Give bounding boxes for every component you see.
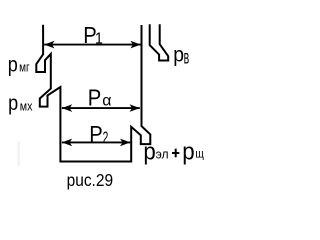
P1 dimension line xyxy=(44,41,141,49)
svg-text:мх: мх xyxy=(20,98,33,113)
P2 dimension line xyxy=(62,139,130,147)
svg-text:puc.29: puc.29 xyxy=(67,170,113,190)
label pмг xyxy=(8,53,30,77)
left funnel wall with Pмг and Pмх outlets, bottom and right wall with Pэл outlet xyxy=(36,25,150,162)
svg-text:α: α xyxy=(102,93,111,110)
label P2 xyxy=(89,121,108,148)
svg-text:в: в xyxy=(184,48,190,69)
faint scan streak artifact xyxy=(18,141,21,166)
label P1 xyxy=(83,22,103,49)
svg-text:p: p xyxy=(8,91,18,115)
svg-text:p: p xyxy=(8,53,18,77)
svg-text:эл: эл xyxy=(156,147,169,161)
svg-text:1: 1 xyxy=(95,30,103,48)
label pв xyxy=(173,43,189,69)
svg-text:мг: мг xyxy=(19,62,30,75)
svg-text:2: 2 xyxy=(103,129,109,147)
label pмх xyxy=(8,91,32,115)
svg-text:P: P xyxy=(88,84,101,111)
Pв inlet channel (top right) xyxy=(150,24,169,60)
svg-text:p: p xyxy=(182,138,194,165)
svg-text:p: p xyxy=(143,138,155,165)
svg-text:P: P xyxy=(89,121,102,148)
svg-text:щ: щ xyxy=(195,148,204,161)
svg-text:p: p xyxy=(173,43,184,67)
label Pa (alpha) xyxy=(88,84,112,111)
Pa dimension line xyxy=(62,104,140,112)
caption puc.29 xyxy=(67,170,113,190)
label pэл+pщ xyxy=(143,138,204,165)
